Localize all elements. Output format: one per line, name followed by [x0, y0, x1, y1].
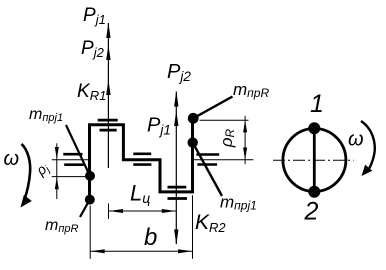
crankpin 2 mass bar bottom: [168, 197, 188, 200]
left journal mass bar bottom: [64, 163, 84, 166]
omega arc left: [22, 144, 31, 200]
Lc dimension left extension: [108, 204, 110, 220]
b dimension right extension: [192, 195, 194, 258]
omega arc left arrowhead: [21, 195, 32, 208]
arrowhead KR1 (up): [106, 80, 110, 96]
Lc dimension line: [109, 210, 177, 212]
rho-j dimension line: [56, 143, 58, 199]
Lc arrow left: [109, 209, 123, 213]
rho-R extension line (mass level): [200, 119, 249, 121]
rho-R dimension line: [244, 116, 246, 164]
crankpin 1 mass bar bottom: [100, 129, 117, 132]
b dimension line: [90, 250, 192, 252]
rho-j extension line (mass level): [52, 176, 85, 178]
svg-text:mпрR: mпрR: [45, 217, 78, 235]
crank circle: [283, 129, 346, 192]
svg-text:ω: ω: [348, 129, 364, 151]
b arrow left: [91, 249, 105, 253]
b dimension left extension: [89, 206, 91, 259]
svg-text:ω: ω: [4, 148, 20, 170]
omega arc right: [361, 121, 375, 172]
svg-text:Pj2: Pj2: [81, 38, 105, 60]
svg-text:KR2: KR2: [195, 211, 226, 235]
svg-text:Pj2: Pj2: [167, 61, 191, 84]
middle journal mass bar top: [133, 153, 151, 156]
left journal mass bar top: [63, 153, 82, 156]
arrowhead Pj1 (up): [106, 23, 110, 39]
leader mprR left: [80, 200, 90, 217]
mass dot mprj1 left: [85, 171, 95, 181]
rho-R arrow lower (down): [243, 148, 247, 160]
svg-text:b: b: [144, 224, 157, 251]
svg-text:Pj1: Pj1: [83, 5, 106, 27]
svg-text:mпрj1: mпрj1: [29, 106, 63, 124]
right journal mass bar top: [196, 153, 219, 156]
arrowhead Pj2 line2 (up): [174, 91, 178, 107]
crank circle centerline (dash-dot): [273, 159, 354, 161]
force line 1 (cylinder 1 axis): [107, 23, 109, 168]
crank circle diameter line: [313, 129, 316, 192]
force line 2 (cylinder 2 axis): [175, 92, 177, 245]
b arrow right: [178, 249, 192, 253]
mass dot mprR right: [188, 113, 199, 124]
crankshaft outline: [90, 118, 193, 199]
rho-R arrow upper (up): [243, 120, 247, 132]
Lc arrow right: [162, 209, 176, 213]
svg-text:Pj1: Pj1: [147, 115, 171, 138]
crankpin 1 mass bar top: [98, 119, 118, 122]
svg-text:ρj: ρj: [32, 159, 53, 180]
right main journal centerline: [194, 159, 253, 161]
omega arc right arrowhead: [362, 165, 373, 176]
leader mprj1 left: [66, 125, 90, 176]
crank position dot 2: [308, 186, 320, 198]
leader mprj1 right: [193, 143, 222, 196]
middle journal mass bar bottom: [133, 163, 151, 166]
svg-text:mпрj1: mпрj1: [220, 193, 257, 213]
svg-text:ρR: ρR: [217, 128, 237, 148]
right journal mass bar bottom: [197, 163, 217, 166]
svg-text:mпрR: mпрR: [233, 80, 269, 100]
leader mprR right: [193, 97, 232, 119]
arrowhead Pj1 line2 (up): [174, 111, 178, 127]
mass dot mprR left: [85, 195, 95, 205]
mass dot mprj1 right: [188, 137, 198, 147]
svg-text:2: 2: [304, 198, 319, 226]
rho-j arrow lower (up): [55, 177, 59, 189]
svg-text:1: 1: [310, 90, 324, 118]
left main journal centerline: [52, 159, 90, 161]
svg-text:KR1: KR1: [77, 81, 106, 103]
crank position dot 1: [308, 122, 320, 134]
arrowhead Pj2 (up): [106, 45, 110, 60]
svg-text:Lц: Lц: [130, 181, 150, 207]
rho-j arrow upper (down): [55, 147, 59, 159]
crankpin 2 mass bar top: [168, 186, 187, 189]
arrowhead KR2 (down): [174, 230, 178, 245]
